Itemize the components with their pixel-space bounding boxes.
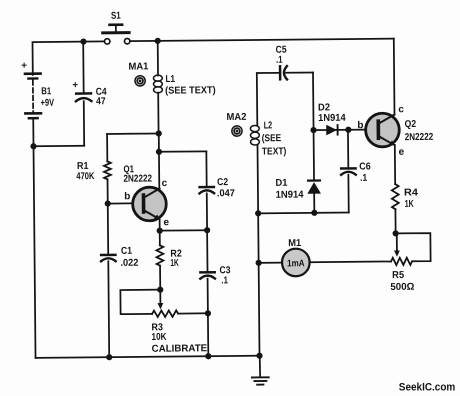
svg-text:.1: .1 (276, 55, 283, 66)
wire L1 bottom to R1 top (107, 132, 159, 134)
wire base node to Q1 (108, 202, 142, 204)
diode D1 (307, 130, 322, 213)
svg-text:e: e (163, 217, 169, 228)
svg-text:2N2222: 2N2222 (123, 173, 152, 184)
svg-text:10K: 10K (151, 332, 167, 343)
transistor Q1 (132, 152, 166, 231)
svg-text:500Ω: 500Ω (390, 282, 414, 293)
svg-text:1K: 1K (170, 258, 179, 269)
resistor R4 (392, 184, 399, 233)
capacitor C1 (101, 255, 117, 357)
wire C4 bottom to left rail (33, 145, 84, 147)
svg-text:e: e (399, 147, 405, 158)
capacitor C5 (280, 66, 313, 80)
transistor Q2 (365, 39, 400, 185)
svg-text:(SEE: (SEE (262, 133, 282, 144)
svg-text:Q2: Q2 (405, 119, 417, 130)
svg-text:1N914: 1N914 (276, 189, 305, 200)
wire bottom bus (36, 356, 260, 358)
battery B1 (25, 74, 41, 119)
svg-text:1N914: 1N914 (318, 113, 346, 124)
wire emitter to C2 bottom (160, 229, 207, 231)
ferrite bead MA1 (135, 76, 145, 86)
node junction bus C3 column (205, 353, 211, 359)
wire node row D2 to Q2 base (314, 128, 377, 131)
diode D2 (326, 124, 338, 136)
svg-text:D2: D2 (318, 102, 331, 113)
svg-text:b: b (124, 191, 130, 202)
wire C5 left and L2 top (257, 73, 280, 126)
wire R5 right loop (396, 233, 431, 261)
svg-text:MA2: MA2 (226, 112, 247, 123)
svg-text:R4: R4 (404, 187, 419, 198)
svg-text:S1: S1 (111, 11, 121, 22)
svg-text:.047: .047 (217, 188, 236, 199)
svg-text:SeekIC.com: SeekIC.com (399, 381, 456, 393)
node junction D1 anode (311, 210, 317, 216)
svg-text:+: + (21, 60, 27, 71)
inductor L2 (250, 125, 260, 213)
svg-text:c: c (398, 104, 404, 115)
svg-text:C2: C2 (217, 177, 228, 188)
node junction R2 bottom wiper (157, 287, 163, 293)
svg-text:D1: D1 (275, 178, 288, 189)
wire R2 to R3 left loop (120, 290, 160, 314)
wire center column to meter (259, 262, 282, 264)
switch S1 (103, 25, 130, 44)
svg-text:C6: C6 (359, 161, 371, 172)
node junction D2 anode (310, 127, 316, 133)
wire collector node to C2 top (159, 150, 206, 152)
svg-text:47: 47 (96, 96, 106, 107)
svg-text:B1: B1 (41, 86, 51, 97)
node junction L1 bottom (156, 130, 162, 136)
meter M1 (282, 249, 310, 277)
svg-text:.1: .1 (360, 173, 367, 184)
wire top rail right segment (130, 39, 393, 42)
wire L1 to collector node (158, 133, 160, 151)
svg-text:+9V: +9V (41, 98, 55, 109)
wire left rail (33, 119, 35, 357)
svg-text:M1: M1 (288, 238, 302, 249)
resistor R1 (104, 134, 111, 204)
ground (252, 356, 269, 385)
wire R3 to C3 bottom (178, 312, 208, 314)
svg-text:R5: R5 (392, 270, 405, 281)
capacitor C3 (200, 230, 215, 313)
node junction Q1 base (105, 200, 111, 206)
wire base node down to C1 (107, 204, 109, 254)
node junction M1 left (255, 260, 261, 266)
wire M1 to R5 (310, 260, 391, 263)
capacitor C4 (75, 42, 92, 146)
wire C2 top lead (205, 151, 207, 185)
svg-text:TEXT): TEXT) (262, 146, 287, 157)
node junction D2 cathode C6 (345, 127, 351, 133)
wire bottom node row L2 to C6 (258, 211, 349, 214)
svg-text:C1: C1 (121, 246, 132, 257)
resistor R2 (156, 231, 163, 290)
wire top rail left segment (32, 41, 104, 74)
svg-text:c: c (162, 178, 168, 189)
node junction ground bus (256, 353, 262, 359)
inductor L1 (153, 41, 163, 134)
svg-text:+: + (72, 80, 78, 91)
node junction C4 top (80, 38, 86, 44)
svg-text:b: b (357, 120, 363, 131)
svg-text:470K: 470K (76, 171, 95, 182)
svg-text:1mA: 1mA (287, 258, 305, 269)
svg-text:1K: 1K (405, 199, 415, 210)
ferrite bead MA2 (232, 126, 242, 136)
svg-text:L2: L2 (264, 120, 273, 131)
capacitor C2 (199, 187, 214, 230)
svg-text:L1: L1 (165, 74, 175, 85)
wire center column L2 node to ground (258, 213, 259, 355)
node junction Q1 emitter (157, 228, 163, 234)
svg-text:CALIBRATE: CALIBRATE (152, 343, 208, 355)
node junction battery C4 bottom (30, 143, 36, 149)
node junction C2 bottom (204, 227, 210, 233)
node junction R4 R5 (393, 230, 399, 236)
potentiometer R3 (152, 290, 178, 318)
node junction L1 top (155, 38, 161, 44)
wire C5 right lead down (312, 72, 315, 130)
node junction L2 bottom (255, 210, 261, 216)
rheostat R5 (391, 233, 412, 265)
node junction C1 bus (106, 354, 112, 360)
svg-text:2N2222: 2N2222 (405, 132, 434, 143)
svg-text:MA1: MA1 (128, 61, 149, 72)
svg-text:.1: .1 (221, 275, 228, 286)
svg-text:.022: .022 (120, 258, 139, 269)
svg-text:(SEE TEXT): (SEE TEXT) (165, 85, 216, 96)
node junction C3 R3 (205, 310, 211, 316)
node junction collector C2 (156, 149, 162, 155)
wire C3 node to bus (207, 313, 209, 356)
capacitor C6 (341, 130, 356, 213)
